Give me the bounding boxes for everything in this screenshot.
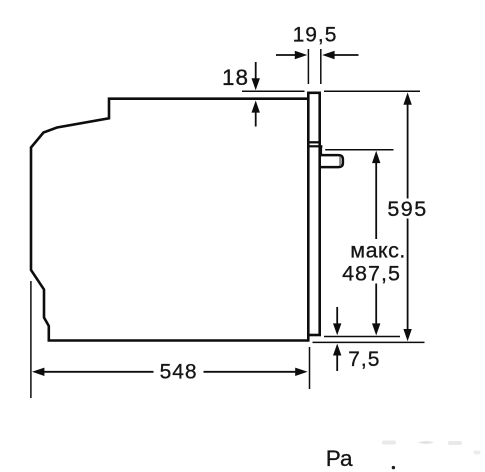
svg-text:595: 595 <box>387 197 427 221</box>
svg-text:макс.: макс. <box>350 239 406 263</box>
extension line 548 left <box>30 281 32 398</box>
handle cap shading <box>339 157 341 166</box>
faint ghost caption marks <box>382 441 481 455</box>
handle bracket vertical <box>320 146 322 155</box>
extension line for 595 top (door top level, right) <box>324 90 420 92</box>
dimension 19,5 right arrow <box>334 54 359 56</box>
extension line A (door bottom level) <box>324 336 400 338</box>
dimension 18 lower arrow (up) <box>255 111 257 127</box>
extension line for 487,5 top (below handle bracket) <box>325 149 393 151</box>
svg-text:Ра: Ра <box>326 446 353 471</box>
dimension 487,5 line <box>372 151 380 163</box>
dimension 595 line <box>403 93 411 105</box>
dimension 548 line <box>32 368 44 376</box>
extension line for 18 (door top level, left) <box>242 90 305 92</box>
extension line 19,5 left <box>307 49 309 84</box>
handle bracket step line <box>307 145 322 147</box>
svg-text:19,5: 19,5 <box>293 24 338 47</box>
door frame left edge foot (down to body bottom) <box>307 335 310 342</box>
dimension 7,5 upper arrow (down) <box>336 307 338 325</box>
svg-text:548: 548 <box>160 361 198 384</box>
dimension 18 upper arrow (down) <box>255 62 257 80</box>
door handle <box>320 155 343 167</box>
dimension 7,5 lower arrow (up) <box>336 355 338 371</box>
oven door front frame <box>308 93 319 335</box>
extension line 548 right <box>309 347 311 389</box>
svg-text:7,5: 7,5 <box>348 348 380 371</box>
door top divider <box>308 141 321 143</box>
extension line 19,5 right <box>320 49 322 84</box>
dimension 19,5 left arrow <box>276 54 296 56</box>
caption dot <box>392 466 395 469</box>
oven body outline <box>31 99 309 341</box>
svg-text:18: 18 <box>222 65 249 90</box>
extension line B (body bottom level) <box>313 341 425 343</box>
svg-text:487,5: 487,5 <box>342 262 401 286</box>
